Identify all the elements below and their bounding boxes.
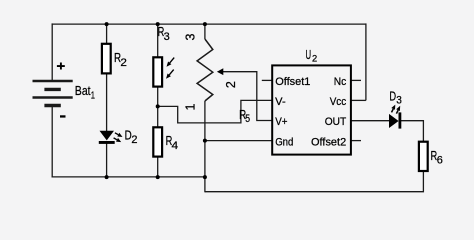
junction top R3: [156, 22, 160, 26]
wire battery bottom lead: [51, 106, 53, 178]
wire node to V- input: [158, 100, 272, 123]
wire wiper to V+: [223, 72, 272, 121]
wire Nc stub: [352, 79, 362, 81]
resistor R2: [102, 44, 111, 74]
label R2: [114, 50, 127, 69]
label R4: [166, 133, 179, 152]
svg-text:Vcc: Vcc: [330, 96, 347, 108]
junction top pot: [203, 22, 207, 26]
wire D2 to rail: [106, 144, 108, 178]
resistor R4: [153, 127, 162, 156]
wire pot bottom lead: [204, 101, 206, 192]
wire R2 top lead: [106, 24, 108, 44]
svg-text:1: 1: [184, 104, 198, 111]
svg-text:4: 4: [172, 140, 179, 152]
potentiometer R5 wiper arrow: [217, 68, 223, 75]
svg-text:Offset2: Offset2: [311, 136, 346, 148]
wire bottom rail: [52, 176, 205, 178]
LED D2: [99, 131, 123, 144]
LED D3: [389, 105, 401, 129]
label R6: [431, 148, 443, 167]
wire Vcc drop: [365, 23, 367, 100]
wire Gnd branch: [205, 140, 272, 142]
wire R4 bottom lead: [157, 157, 159, 177]
svg-text:D: D: [389, 88, 396, 103]
svg-text:3: 3: [164, 31, 170, 43]
svg-text:Nc: Nc: [334, 76, 347, 88]
label Bat1 plus: [57, 63, 65, 70]
junction gnd branch: [203, 139, 207, 143]
wire R3 to R4: [157, 87, 159, 127]
label D2: [125, 127, 138, 146]
junction bottom D2: [105, 175, 109, 179]
label Bat1 minus: [60, 115, 66, 117]
svg-text:2: 2: [131, 134, 137, 146]
label R5: [239, 107, 250, 125]
wire Offset1 stub: [262, 79, 272, 81]
svg-text:6: 6: [437, 154, 443, 166]
photoresistor R3 arrows: [166, 58, 174, 79]
svg-text:2: 2: [120, 57, 127, 69]
svg-text:2: 2: [224, 81, 238, 88]
svg-text:3: 3: [184, 34, 198, 41]
wire R2 to D2: [106, 74, 108, 132]
potentiometer R5 zigzag: [197, 39, 213, 101]
wire R3 top lead: [157, 24, 159, 57]
label D3: [389, 88, 401, 106]
svg-text:Gnd: Gnd: [275, 136, 293, 148]
junction bottom pot: [203, 175, 207, 179]
svg-text:Offset1: Offset1: [275, 76, 310, 88]
svg-text:U: U: [306, 47, 312, 62]
wire R6 bottom return: [205, 172, 424, 192]
svg-text:2: 2: [312, 54, 317, 65]
resistor R6: [419, 142, 428, 171]
svg-text:V+: V+: [275, 116, 287, 128]
junction top R2: [105, 22, 109, 26]
svg-text:V-: V-: [275, 96, 286, 108]
wire Vcc stub: [352, 99, 366, 101]
svg-text:OUT: OUT: [325, 116, 347, 128]
battery Bat1: [33, 81, 73, 106]
svg-text:5: 5: [245, 113, 250, 125]
svg-text:Bat: Bat: [75, 83, 91, 98]
label Bat1: [75, 83, 95, 102]
junction bottom R4: [156, 175, 160, 179]
wire D3 to R6: [400, 121, 423, 141]
wire pot top lead: [204, 24, 206, 39]
photoresistor R3: [153, 57, 162, 86]
op-amp U2 box: [272, 65, 351, 154]
junction node V- divider: [156, 104, 160, 108]
wire top rail: [52, 23, 367, 25]
label U2: [306, 47, 318, 64]
svg-text:1: 1: [91, 90, 95, 102]
svg-text:3: 3: [396, 94, 402, 106]
wire battery top lead: [51, 23, 53, 80]
wire OUT to D3: [352, 120, 390, 122]
label R3: [158, 24, 170, 43]
wire Offset2 stub: [352, 140, 362, 142]
